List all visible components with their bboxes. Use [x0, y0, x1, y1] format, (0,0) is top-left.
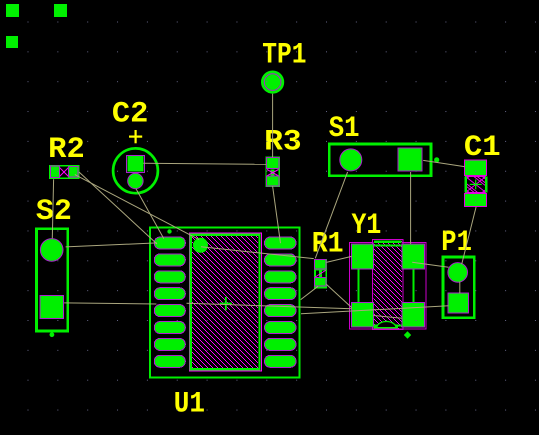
capacitor C1: [464, 160, 487, 207]
wire Y1-P1: [412, 262, 448, 267]
wire S1-C1: [423, 160, 464, 166]
wire S2-U1pin5: [64, 303, 156, 304]
wire R1-Y1b: [326, 284, 351, 307]
pad artifact top-left 1: [6, 4, 19, 17]
connector P1: [443, 257, 474, 318]
wire S1-Y1: [410, 172, 412, 244]
wire U1pin5-Y1: [187, 303, 352, 309]
crystal Y1: [350, 239, 427, 338]
U1 pin1 dot: [193, 238, 208, 253]
capacitor C2: [113, 148, 158, 193]
switch S2: [37, 229, 68, 338]
wire Y1BL-Y1BR: [374, 316, 403, 319]
U1 pads right: [265, 237, 297, 367]
resistor R2: [49, 165, 79, 179]
Y1 via diamond: [404, 331, 411, 338]
resistor R1: [314, 259, 327, 289]
wire C1-P1: [462, 207, 476, 264]
wire R1-U1: [301, 286, 318, 299]
pad artifact top-left 3: [6, 36, 18, 48]
op-amp U1: [150, 228, 300, 378]
wire R3-U1pin16: [273, 186, 281, 243]
wire U1-P1sq: [301, 306, 449, 314]
wire R2-S2: [52, 179, 53, 238]
wire C2-R3: [144, 163, 267, 164]
wire C2-U1pin1: [136, 189, 164, 239]
wire U1dot-R1: [201, 247, 314, 259]
U1 pads left: [154, 237, 185, 367]
resistor R3: [266, 156, 280, 187]
label C2 plus: [129, 130, 142, 143]
wire TP1-R3: [272, 94, 274, 158]
U1 center cross: [220, 297, 232, 310]
wire R2-U1pin1: [79, 172, 157, 244]
wire S2-U1pin1: [66, 243, 157, 247]
pad artifact top-left 2: [54, 4, 67, 17]
wire P1circ-P1sq: [459, 282, 461, 294]
wire R2-U1dot: [75, 175, 199, 240]
U1 via dot: [167, 229, 171, 233]
wire S1-R1: [315, 172, 347, 258]
wire R1-Y1a: [326, 256, 351, 262]
testpoint TP1: [262, 71, 284, 93]
switch S1: [329, 144, 439, 176]
